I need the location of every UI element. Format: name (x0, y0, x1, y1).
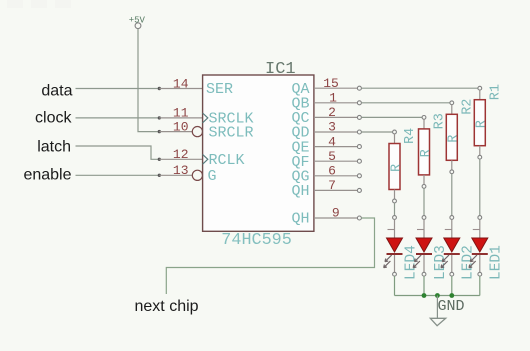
pin 5 stub (314, 160, 358, 162)
svg-text:13: 13 (173, 163, 189, 178)
wire LED4 to ground bus (394, 276, 396, 295)
svg-text:R: R (419, 149, 434, 157)
svg-text:SER: SER (206, 81, 233, 98)
pin 12 stub (159, 158, 202, 160)
pin 1 stub (314, 102, 358, 104)
svg-text:clock: clock (35, 110, 72, 127)
pin 9 end circle (357, 216, 361, 220)
svg-text:+5V: +5V (129, 15, 146, 25)
pin 4 stub (314, 146, 358, 148)
wire R3 to LED3 (423, 188, 425, 215)
LED LED4 (384, 216, 403, 277)
svg-text:latch: latch (37, 139, 71, 156)
wire enable to pin 13 (76, 174, 158, 176)
svg-text:R2: R2 (460, 99, 475, 115)
junction GND tap (435, 293, 440, 298)
svg-text:next chip: next chip (135, 298, 199, 315)
svg-text:QH: QH (291, 183, 309, 200)
svg-text:R: R (389, 164, 404, 172)
svg-text:9: 9 (332, 206, 340, 221)
wire latch to pin 12 (76, 146, 158, 159)
svg-text:7: 7 (328, 178, 336, 193)
wire LED2 to ground bus (451, 276, 453, 295)
clock wedge pin 11 (203, 113, 208, 123)
pin 3 stub (314, 131, 358, 133)
wire data to pin 14 (76, 88, 158, 90)
pin 6 end circle (357, 174, 361, 178)
svg-text:74HC595: 74HC595 (221, 231, 291, 250)
svg-text:2: 2 (328, 105, 336, 120)
ground symbol (430, 318, 445, 325)
svg-text:LED1: LED1 (489, 245, 505, 280)
resistor R2 (446, 101, 457, 174)
wire GND stub (436, 296, 438, 319)
pin 3 end circle (357, 130, 361, 134)
pin 2 end circle (357, 115, 361, 119)
junction pin12 end (158, 158, 161, 161)
svg-text:data: data (41, 83, 72, 100)
wire R2 to LED2 (451, 174, 453, 216)
svg-text:1: 1 (329, 91, 337, 106)
junction pin11 end (158, 116, 161, 119)
wire QH to next chip (166, 218, 374, 294)
pin 7 end circle (357, 188, 361, 192)
pin 11 stub (159, 117, 202, 119)
pin 14 stub (159, 88, 202, 90)
wire ground bus (395, 295, 480, 297)
wire QA to R1 (361, 87, 477, 89)
svg-text:14: 14 (173, 76, 189, 91)
wire QB to R2 (361, 102, 449, 104)
svg-text:SRCLR: SRCLR (209, 124, 254, 141)
resistor R3 (419, 116, 430, 189)
svg-text:10: 10 (173, 119, 189, 134)
pin 5 end circle (357, 159, 361, 163)
svg-text:11: 11 (173, 106, 189, 121)
svg-text:4: 4 (328, 134, 336, 149)
pin 10 stub (159, 131, 192, 133)
svg-text:GND: GND (438, 298, 465, 315)
svg-text:15: 15 (323, 76, 339, 91)
IC IC1 74HC595 body (203, 75, 314, 231)
junction pin13 end (158, 174, 161, 177)
pin 13 stub (159, 174, 192, 176)
junction LED2 bus (449, 293, 454, 298)
pin 15 end circle (357, 86, 361, 90)
junction pin14 end (158, 87, 161, 90)
svg-text:R: R (475, 120, 490, 128)
resistor R4 (389, 130, 400, 203)
svg-text:LED4: LED4 (403, 245, 419, 280)
wire QD to R4 (361, 131, 392, 133)
svg-text:12: 12 (173, 147, 189, 162)
inversion bubble pin 10 (192, 127, 202, 137)
wire clock to pin 11 (76, 117, 158, 119)
junction LED3 bus (422, 293, 427, 298)
clock wedge pin 12 (203, 154, 208, 164)
pin 7 stub (314, 189, 358, 191)
svg-text:RCLK: RCLK (209, 152, 245, 169)
svg-text:G: G (208, 168, 217, 185)
pin 4 end circle (357, 145, 361, 149)
svg-text:QH: QH (291, 211, 309, 228)
pin 2 stub (314, 116, 358, 118)
LED LED3 (413, 216, 432, 277)
pin 15 stub (314, 87, 358, 89)
svg-text:IC1: IC1 (265, 60, 296, 79)
wire LED1 to ground bus (479, 276, 481, 295)
resistor R1 (474, 86, 485, 159)
LED LED1 (469, 216, 488, 277)
inversion bubble pin 13 (192, 170, 202, 180)
svg-text:3: 3 (328, 120, 336, 135)
svg-text:5: 5 (328, 149, 336, 164)
power +5V symbol (129, 15, 146, 28)
svg-text:R3: R3 (433, 113, 448, 129)
svg-text:R: R (447, 135, 462, 143)
junction pin10 end (158, 130, 161, 133)
svg-text:enable: enable (23, 167, 71, 184)
svg-text:6: 6 (328, 164, 336, 179)
svg-text:R1: R1 (488, 84, 503, 100)
pin 6 stub (314, 175, 358, 177)
wire R1 to LED1 (479, 159, 481, 216)
wire LED3 to ground bus (423, 276, 425, 295)
wire QC to R3 (361, 116, 422, 118)
wire +5V vertical to SRCLR (138, 29, 158, 132)
wire R4 to LED4 (394, 203, 396, 216)
LED LED2 (441, 216, 460, 277)
pin 1 end circle (357, 101, 361, 105)
svg-text:R4: R4 (403, 128, 418, 144)
pin 9 stub (314, 217, 358, 219)
